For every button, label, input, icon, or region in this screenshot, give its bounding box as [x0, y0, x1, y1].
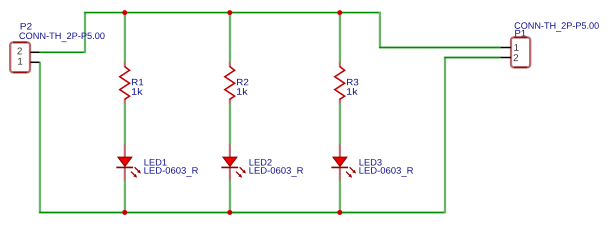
- junction node B bottom: [227, 210, 232, 215]
- wire R3 to LED3: [339, 103, 341, 145]
- LED LED3: [331, 144, 356, 180]
- wire top rail: [84, 12, 380, 14]
- P1 pin number 2: [514, 54, 519, 61]
- LED2 value label LED-0603_R: [249, 167, 303, 177]
- P2 value label CONN-TH_2P-P5.00: [19, 33, 104, 43]
- junction node A top: [122, 10, 127, 15]
- junction node C bottom: [337, 210, 342, 215]
- P1 refdes label: [515, 30, 526, 36]
- wire top rail to R1: [124, 13, 126, 63]
- R3 refdes label: [347, 79, 358, 86]
- P1 pin number 1: [514, 44, 518, 51]
- P2 pin number 2: [17, 47, 22, 54]
- wire P2 pin2 to riser: [40, 51, 86, 53]
- resistor R2: [225, 62, 235, 103]
- LED LED1: [116, 144, 141, 180]
- R2 refdes label: [237, 79, 248, 85]
- wire drop at x=380: [379, 12, 381, 48]
- junction node C top: [337, 10, 342, 15]
- wire LED2 to bottom rail: [229, 180, 231, 213]
- wire to P1 pin2: [444, 57, 500, 59]
- wire LED3 to bottom rail: [339, 180, 341, 213]
- wire top rail to R2: [229, 13, 231, 63]
- LED1 value label LED-0603_R: [144, 167, 198, 177]
- P2 pin number 1: [18, 58, 22, 65]
- wire R1 to LED1: [124, 103, 126, 145]
- wire riser at x=445: [444, 57, 446, 213]
- wire P2 pin1 drop at x=40: [39, 62, 41, 213]
- connector P1: [501, 37, 531, 67]
- P2 refdes label: [21, 23, 32, 29]
- junction node B top: [227, 10, 232, 15]
- junction node A bottom: [122, 210, 127, 215]
- LED LED2: [221, 144, 246, 180]
- R1 refdes label: [132, 79, 143, 85]
- connector P2: [10, 42, 39, 72]
- wire LED1 to bottom rail: [124, 180, 126, 213]
- wire top rail to R3: [339, 13, 341, 63]
- wire riser at x=85: [84, 12, 86, 53]
- R1 value label 1k: [132, 88, 143, 95]
- resistor R3: [335, 62, 345, 103]
- R2 value label 1k: [237, 88, 248, 95]
- LED3 value label LED-0603_R: [359, 167, 413, 177]
- LED3 refdes label: [360, 159, 382, 166]
- wire to P1 pin1: [379, 47, 500, 49]
- resistor R1: [120, 62, 130, 103]
- wire bottom rail: [39, 212, 445, 214]
- LED1 refdes label: [145, 159, 167, 165]
- LED2 refdes label: [250, 159, 272, 165]
- R3 value label 1k: [347, 88, 358, 95]
- P1 value label CONN-TH_2P-P5.00: [515, 22, 599, 32]
- wire R2 to LED2: [229, 103, 231, 145]
